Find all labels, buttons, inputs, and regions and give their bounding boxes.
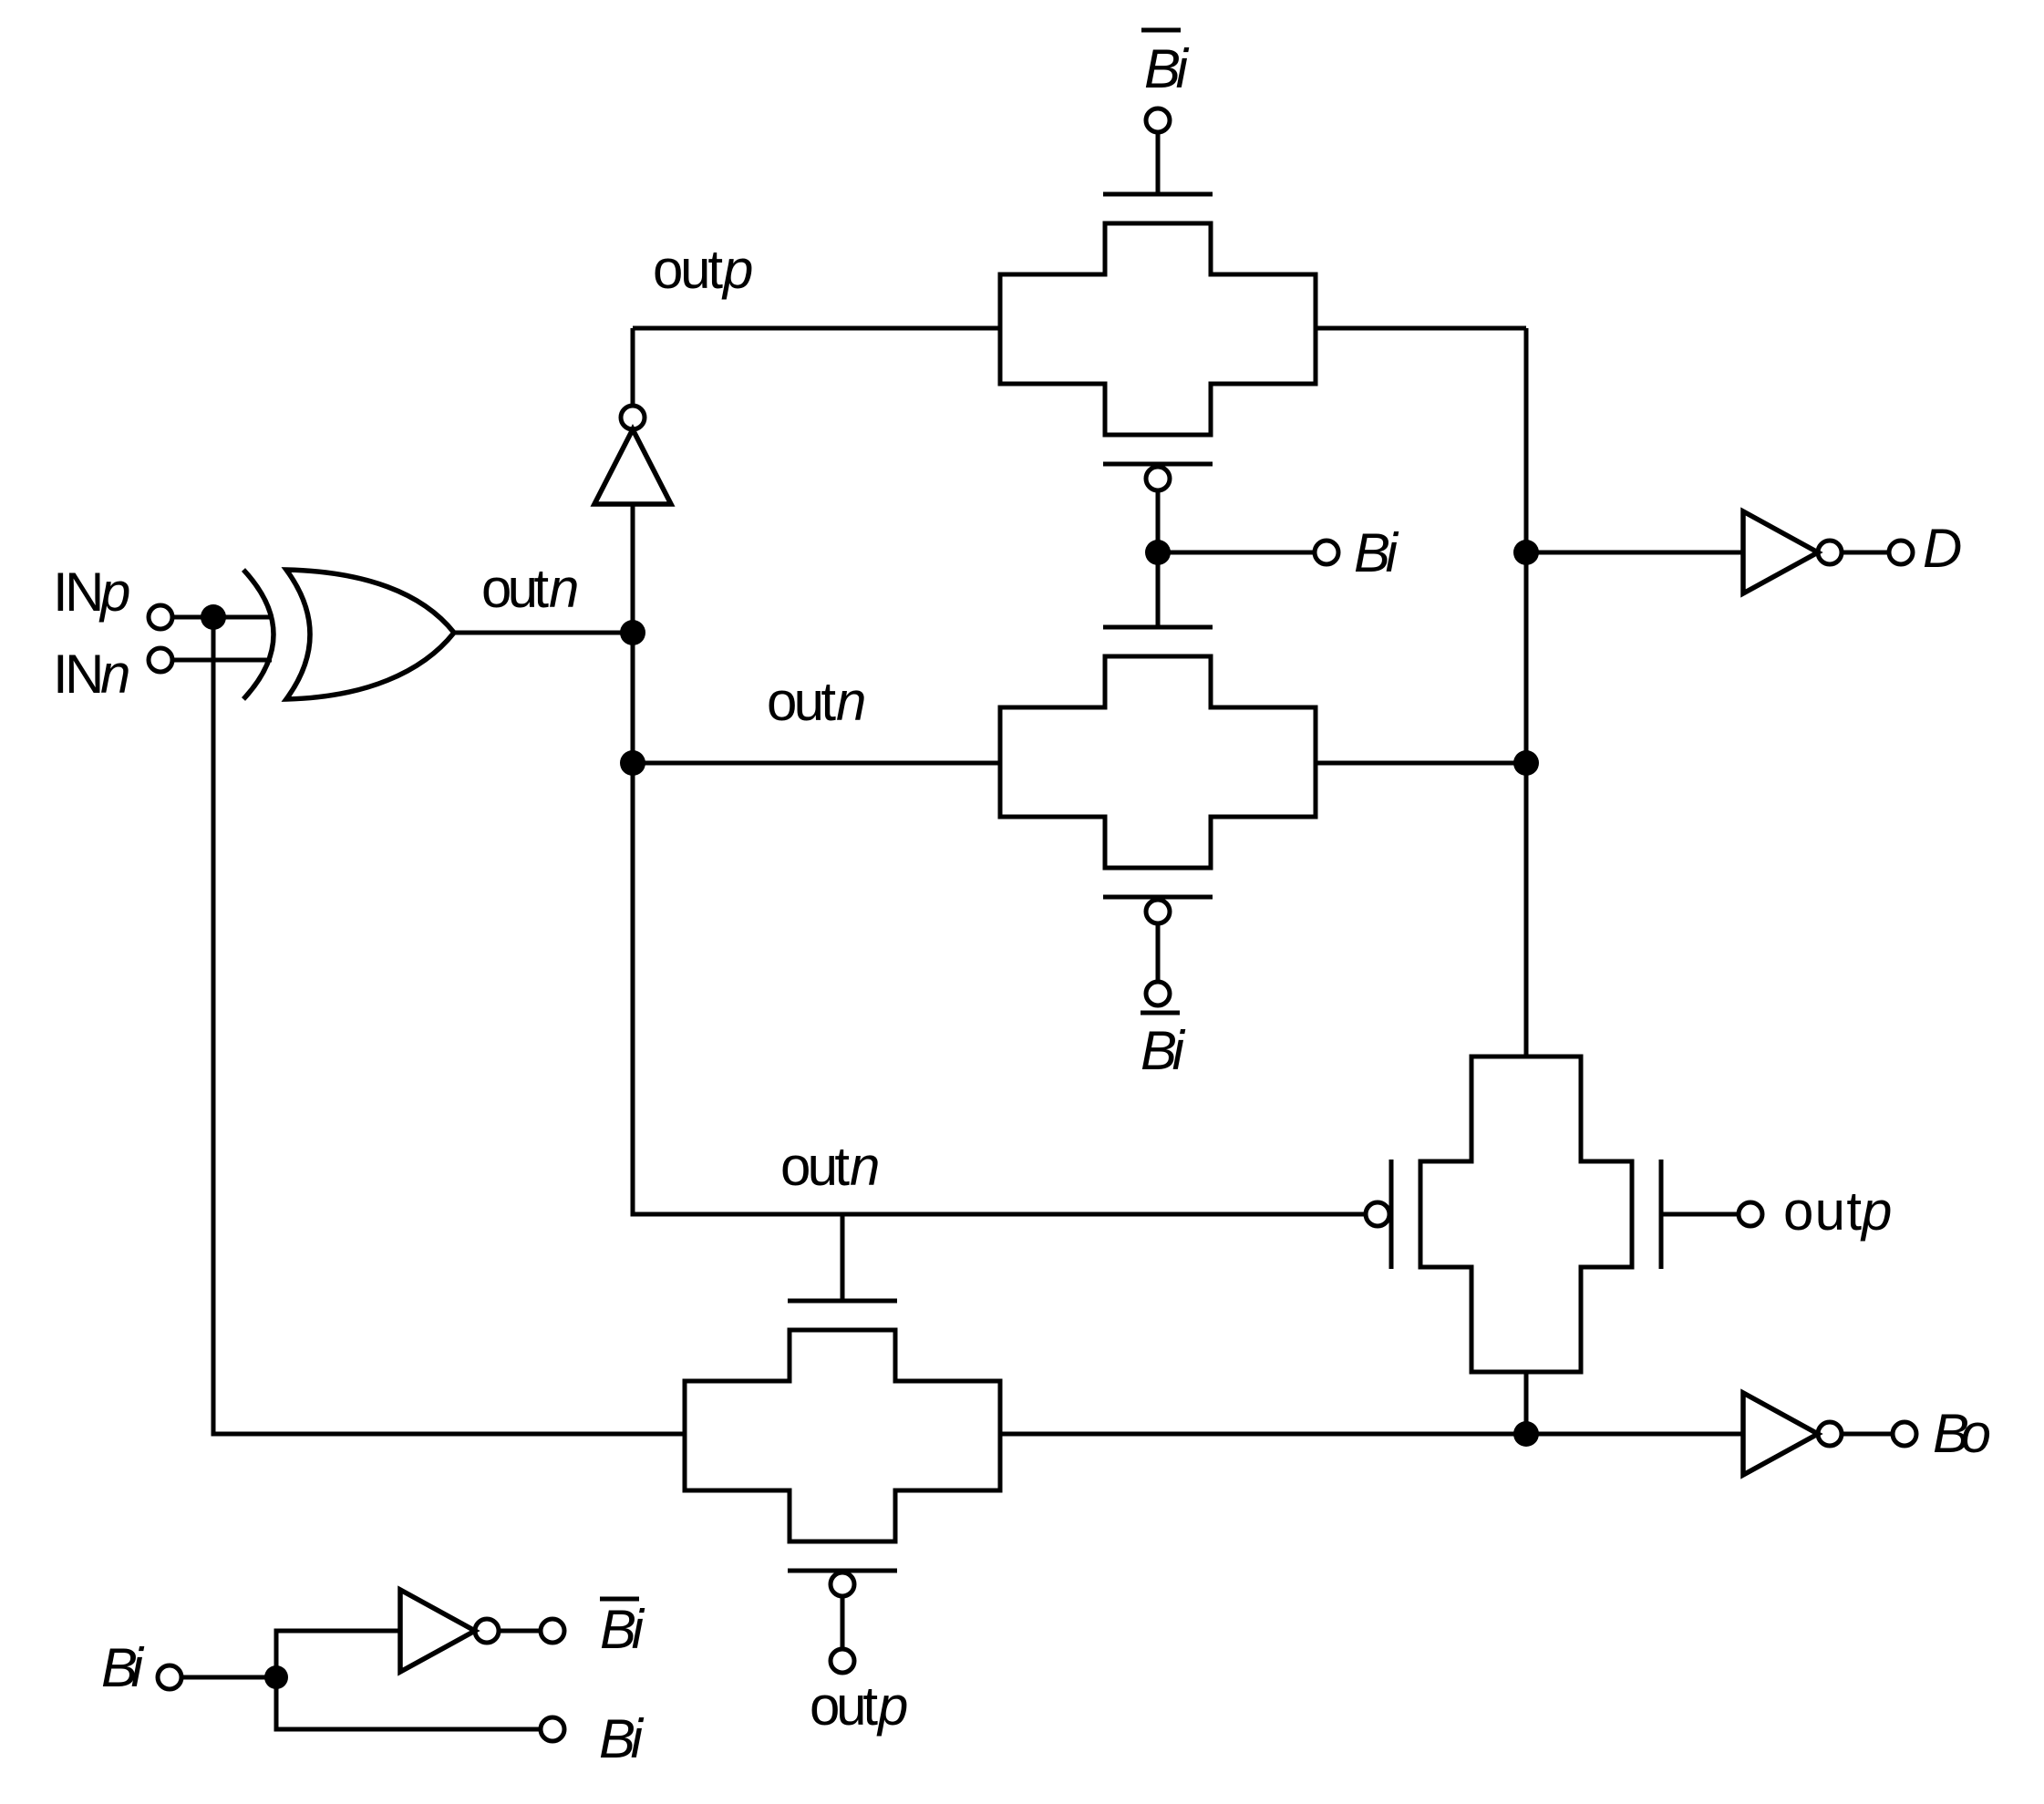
- junction Bi input node: [264, 1665, 288, 1689]
- wire outn (XOR output): [454, 631, 633, 635]
- bubble of inverter U5: [475, 1619, 499, 1643]
- gate bar TG2 top: [1103, 625, 1213, 630]
- gate bar TG1 top: [1103, 192, 1213, 197]
- node outp terminal (right): [1739, 1202, 1762, 1226]
- junction row 2 right: [1513, 750, 1539, 776]
- svg-text:Bi: Bi: [600, 1599, 645, 1660]
- svg-text:p: p: [1860, 1180, 1892, 1242]
- svg-text:out: out: [1783, 1180, 1862, 1242]
- inverter U2 (outn to outp, pointing up): [594, 429, 671, 504]
- gate bar TG4 bottom: [788, 1569, 897, 1573]
- svg-text:Bi: Bi: [1144, 38, 1190, 99]
- wire outn rail up to inverter U2: [631, 504, 635, 633]
- bubble TG4 bottom gate: [831, 1572, 854, 1596]
- wire TG3 right gate to outp terminal: [1663, 1212, 1739, 1217]
- overbar of Bi-bar (bottom left output): [600, 1597, 639, 1602]
- transmission gate TG4 (bottom): [685, 1330, 1000, 1541]
- wire outp row 1 left segment: [633, 326, 1000, 331]
- svg-text:p: p: [98, 562, 130, 623]
- wire outn row 2 left segment: [633, 761, 1000, 766]
- wire TG2 bottom gate lead: [1156, 923, 1161, 982]
- node Bo terminal: [1893, 1422, 1916, 1446]
- wire Bi input: [181, 1675, 276, 1680]
- overbar of Bi-bar (top): [1141, 28, 1181, 33]
- svg-text:n: n: [100, 644, 130, 705]
- node INn terminal: [149, 648, 172, 672]
- junction Bo node: [1513, 1421, 1539, 1447]
- gate bar TG4 top: [788, 1299, 897, 1304]
- svg-text:n: n: [836, 671, 866, 732]
- node Bi terminal (bottom left output): [541, 1717, 564, 1741]
- wire D tap to inverter U3: [1526, 551, 1743, 555]
- svg-text:N: N: [65, 562, 104, 623]
- wire right rail down to TG3: [1524, 328, 1529, 1057]
- svg-text:n: n: [850, 1136, 880, 1197]
- svg-text:out: out: [810, 1675, 878, 1737]
- transmission gate TG3 (right, rotated): [1420, 1057, 1632, 1372]
- bubble TG2 bottom gate: [1146, 900, 1170, 923]
- wire Bi to inverter U5: [276, 1631, 400, 1677]
- bubble TG3 left gate: [1366, 1202, 1389, 1226]
- svg-text:out: out: [767, 671, 836, 732]
- wire outn rail down (junction to row 3 corner): [633, 633, 1365, 1214]
- svg-text:p: p: [876, 1675, 908, 1737]
- svg-text:N: N: [65, 644, 104, 705]
- node Bi-bar terminal (below TG2): [1146, 982, 1170, 1005]
- wire TG4 bottom gate lead: [841, 1596, 845, 1649]
- wire U4 output: [1842, 1432, 1893, 1437]
- node Bi terminal (mid): [1315, 541, 1338, 564]
- junction outn node: [620, 620, 645, 645]
- bubble of inverter U4: [1818, 1422, 1842, 1446]
- wire TG1 bottom gate to Bi node: [1156, 490, 1161, 552]
- node Bi input terminal (bottom left): [158, 1665, 181, 1689]
- wire Bi buffered branch: [276, 1677, 541, 1729]
- wire INn input: [172, 658, 272, 663]
- transmission gate TG1 (top): [1000, 223, 1316, 435]
- wire U3 output: [1842, 551, 1889, 555]
- inverter U3 (D output): [1743, 511, 1818, 593]
- node Bi-bar terminal (bottom left): [541, 1619, 564, 1643]
- junction Bi gate node: [1145, 540, 1171, 565]
- svg-text:out: out: [653, 239, 723, 300]
- svg-text:Bi: Bi: [1354, 522, 1399, 583]
- svg-text:Bi: Bi: [101, 1637, 145, 1698]
- wire TG1 top gate lead: [1156, 132, 1161, 194]
- bubble of inverter U2: [621, 406, 645, 429]
- wire Bo row right segment: [1000, 1432, 1743, 1437]
- svg-text:Bi: Bi: [599, 1708, 645, 1769]
- wire INp input: [172, 615, 274, 620]
- gate bar TG3 right: [1659, 1160, 1664, 1269]
- svg-text:D: D: [1923, 518, 1962, 579]
- wire U5 output: [499, 1629, 541, 1634]
- node Bi-bar terminal (top): [1146, 108, 1170, 132]
- junction outn row 2 tap: [620, 750, 645, 776]
- bubble of inverter U3: [1818, 541, 1842, 564]
- svg-text:Bo: Bo: [1933, 1403, 1991, 1464]
- wire TG4 top gate lead from outn row 3: [841, 1214, 845, 1301]
- inverter U5 (Bi to Bi-bar): [400, 1590, 475, 1672]
- wire left rail from INp tap down to bottom row: [213, 617, 685, 1434]
- node D terminal: [1889, 541, 1913, 564]
- wire outp row 1 right segment: [1316, 326, 1526, 331]
- xor-gate U1: [243, 570, 454, 699]
- overbar of Bi-bar (below TG2): [1141, 1011, 1180, 1015]
- svg-text:out: out: [481, 558, 549, 619]
- junction D tap: [1513, 540, 1539, 565]
- wire outn row 2 right segment: [1316, 761, 1526, 766]
- transmission gate TG2 (middle): [1000, 656, 1316, 868]
- node INp terminal: [149, 605, 172, 629]
- node outp terminal (bottom): [831, 1649, 854, 1673]
- gate bar TG2 bottom: [1103, 895, 1213, 900]
- svg-text:n: n: [549, 558, 579, 619]
- wire Bi gate node to terminal: [1158, 551, 1315, 555]
- wire outp vertical to row 1: [631, 328, 635, 406]
- gate bar TG3 left: [1389, 1160, 1394, 1269]
- inverter U4 (Bo output): [1743, 1393, 1818, 1475]
- svg-text:Bi: Bi: [1141, 1020, 1186, 1081]
- svg-text:out: out: [780, 1136, 850, 1197]
- junction INp tap: [201, 604, 226, 630]
- wire TG3 bottom to Bo row: [1524, 1372, 1529, 1434]
- bubble TG1 bottom gate: [1146, 467, 1170, 490]
- wire TG2 top gate lead: [1156, 552, 1161, 627]
- svg-text:p: p: [721, 239, 753, 300]
- gate bar TG1 bottom: [1103, 462, 1213, 467]
